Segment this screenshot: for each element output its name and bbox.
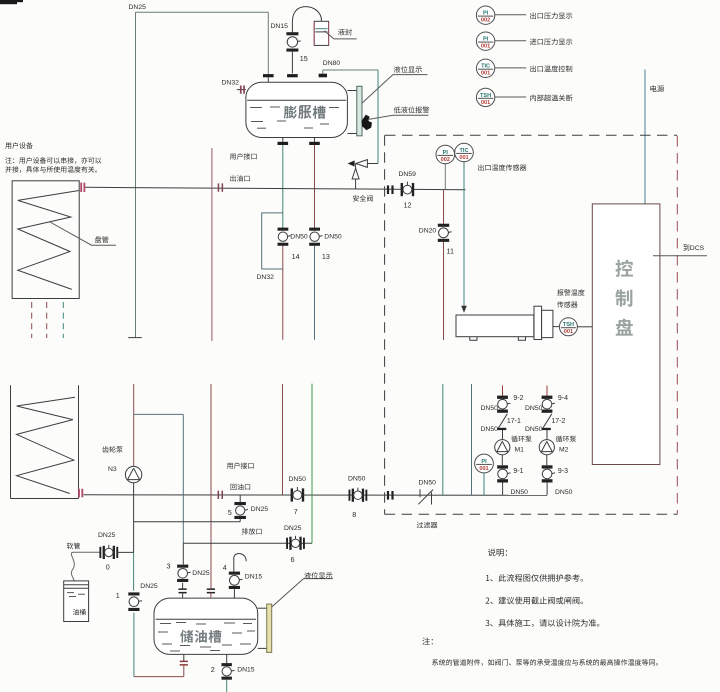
svg-text:DN50: DN50 [525, 426, 543, 433]
svg-text:001: 001 [481, 71, 490, 77]
svg-text:17-1: 17-1 [507, 418, 521, 425]
svg-text:DN50: DN50 [348, 475, 366, 482]
svg-text:001: 001 [481, 44, 490, 50]
svg-text:DN32: DN32 [222, 80, 240, 87]
svg-text:13: 13 [322, 252, 330, 261]
svg-text:001: 001 [481, 100, 490, 106]
svg-text:PI: PI [481, 459, 487, 465]
svg-text:TSH: TSH [563, 322, 574, 328]
svg-text:DN25: DN25 [129, 4, 147, 11]
svg-text:DN15: DN15 [245, 573, 263, 580]
svg-text:DN80: DN80 [323, 60, 341, 67]
svg-text:DN25: DN25 [98, 532, 116, 539]
svg-text:M2: M2 [559, 447, 569, 454]
svg-text:DN50: DN50 [419, 480, 437, 487]
svg-text:1: 1 [116, 591, 120, 600]
svg-text:DN59: DN59 [399, 171, 417, 178]
svg-text:9-1: 9-1 [513, 468, 523, 475]
svg-text:4: 4 [223, 563, 227, 572]
svg-text:DN20: DN20 [419, 227, 437, 234]
svg-text:N3: N3 [108, 466, 117, 473]
svg-text:DN50: DN50 [511, 489, 529, 496]
svg-text:12: 12 [404, 201, 412, 210]
svg-text:2: 2 [211, 665, 215, 674]
svg-text:TIC: TIC [481, 64, 490, 70]
svg-text:17-2: 17-2 [551, 418, 565, 425]
svg-text:DN25: DN25 [140, 583, 158, 590]
svg-text:到DCS: 到DCS [683, 244, 705, 252]
svg-text:001: 001 [564, 329, 573, 335]
svg-text:DN25: DN25 [192, 570, 210, 577]
svg-text:DN32: DN32 [257, 274, 275, 281]
svg-text:9-2: 9-2 [513, 395, 523, 402]
svg-text:9-4: 9-4 [558, 395, 568, 402]
svg-text:DN25: DN25 [284, 525, 302, 532]
svg-text:DN50: DN50 [481, 405, 499, 412]
svg-text:DN50: DN50 [481, 426, 499, 433]
svg-text:002: 002 [441, 157, 450, 163]
svg-text:001: 001 [479, 466, 488, 472]
svg-text:002: 002 [481, 18, 490, 24]
svg-text:001: 001 [459, 155, 468, 161]
svg-text:14: 14 [292, 252, 300, 261]
svg-text:DN50: DN50 [290, 233, 308, 240]
svg-text:PI: PI [483, 37, 489, 43]
svg-text:DN15: DN15 [237, 666, 255, 673]
svg-text:6: 6 [291, 555, 295, 564]
svg-text:7: 7 [294, 507, 298, 516]
svg-text:DN15: DN15 [271, 23, 289, 30]
svg-text:PI: PI [443, 150, 449, 156]
svg-text:DN50: DN50 [324, 233, 342, 240]
svg-text:DN50: DN50 [555, 489, 573, 496]
svg-text:TIC: TIC [459, 148, 468, 154]
svg-text:15: 15 [300, 54, 308, 63]
svg-text:PI: PI [483, 11, 489, 17]
svg-text:TSH: TSH [480, 93, 491, 99]
svg-text:DN50: DN50 [289, 476, 307, 483]
svg-text:M1: M1 [515, 447, 525, 454]
svg-text:3: 3 [167, 561, 171, 570]
svg-text:5: 5 [228, 508, 232, 517]
svg-text:9-3: 9-3 [558, 468, 568, 475]
svg-text:8: 8 [352, 510, 356, 519]
svg-text:0: 0 [106, 563, 110, 572]
svg-text:11: 11 [447, 246, 454, 255]
svg-text:DN25: DN25 [251, 506, 269, 513]
svg-text:DN50: DN50 [525, 405, 543, 412]
